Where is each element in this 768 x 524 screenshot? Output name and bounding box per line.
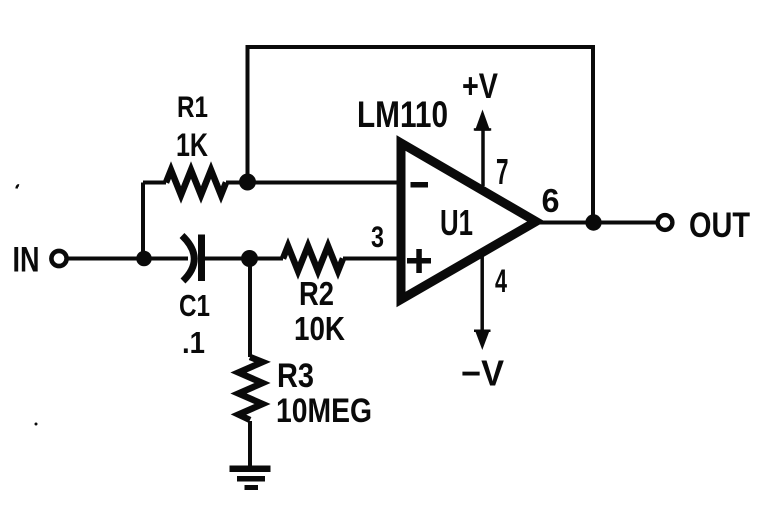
wire IN to C1 bbox=[67, 257, 188, 261]
wire feedback left vertical bbox=[246, 45, 250, 182]
wire input branch vertical bbox=[141, 183, 145, 259]
op-amp minus input symbol bbox=[411, 182, 429, 188]
svg-text:+V: +V bbox=[462, 67, 499, 106]
-V supply arrow bbox=[474, 252, 491, 350]
svg-text:.1: .1 bbox=[182, 325, 205, 360]
+V supply arrow bbox=[474, 110, 491, 187]
ground bbox=[230, 466, 271, 491]
svg-text:R2: R2 bbox=[299, 275, 334, 312]
OUT terminal circle bbox=[658, 215, 673, 230]
svg-text:1K: 1K bbox=[176, 127, 208, 163]
stray scan mark left bbox=[17, 185, 20, 188]
svg-text:R3: R3 bbox=[277, 357, 314, 395]
svg-text:IN: IN bbox=[13, 241, 40, 280]
svg-text:U1: U1 bbox=[440, 202, 473, 243]
svg-text:3: 3 bbox=[371, 221, 384, 254]
stray scan speck bbox=[35, 423, 38, 426]
IN terminal circle bbox=[51, 251, 66, 266]
node junction dot output/feedback bbox=[585, 214, 601, 230]
svg-text:R1: R1 bbox=[177, 91, 208, 124]
svg-text:C1: C1 bbox=[179, 288, 210, 323]
svg-text:−V: −V bbox=[461, 353, 504, 394]
wire C1 to R2 bbox=[205, 257, 283, 261]
op-amp plus input symbol bbox=[407, 249, 431, 273]
svg-text:LM110: LM110 bbox=[357, 94, 448, 135]
capacitor C1 straight plate bbox=[198, 235, 205, 282]
node junction dot C1/R3/R2 bbox=[241, 250, 258, 267]
node junction dot at IN branch bbox=[136, 251, 152, 267]
svg-text:6: 6 bbox=[542, 182, 560, 219]
svg-text:7: 7 bbox=[496, 151, 509, 192]
wire R3 bottom lead to ground bbox=[248, 421, 252, 467]
wire R1 to op-amp minus input bbox=[226, 181, 399, 185]
svg-text:10K: 10K bbox=[294, 310, 345, 347]
wire R3 top lead bbox=[248, 259, 252, 358]
wire R2 to op-amp plus input pin 3 bbox=[343, 257, 399, 261]
node junction dot R1/feedback bbox=[239, 174, 256, 191]
resistor R2 bbox=[283, 246, 343, 271]
op-amp U1 triangle bbox=[401, 143, 536, 300]
resistor R1 bbox=[166, 170, 226, 195]
wire op-amp output pin 6 to OUT bbox=[536, 221, 657, 225]
capacitor C1 curved plate bbox=[182, 236, 194, 282]
wire feedback top bbox=[248, 45, 594, 49]
svg-text:4: 4 bbox=[495, 263, 507, 299]
svg-text:10MEG: 10MEG bbox=[276, 392, 372, 430]
wire feedback right vertical bbox=[591, 45, 595, 223]
svg-text:OUT: OUT bbox=[689, 206, 750, 245]
resistor R3 bbox=[239, 357, 263, 420]
wire R1 left lead bbox=[143, 181, 166, 185]
